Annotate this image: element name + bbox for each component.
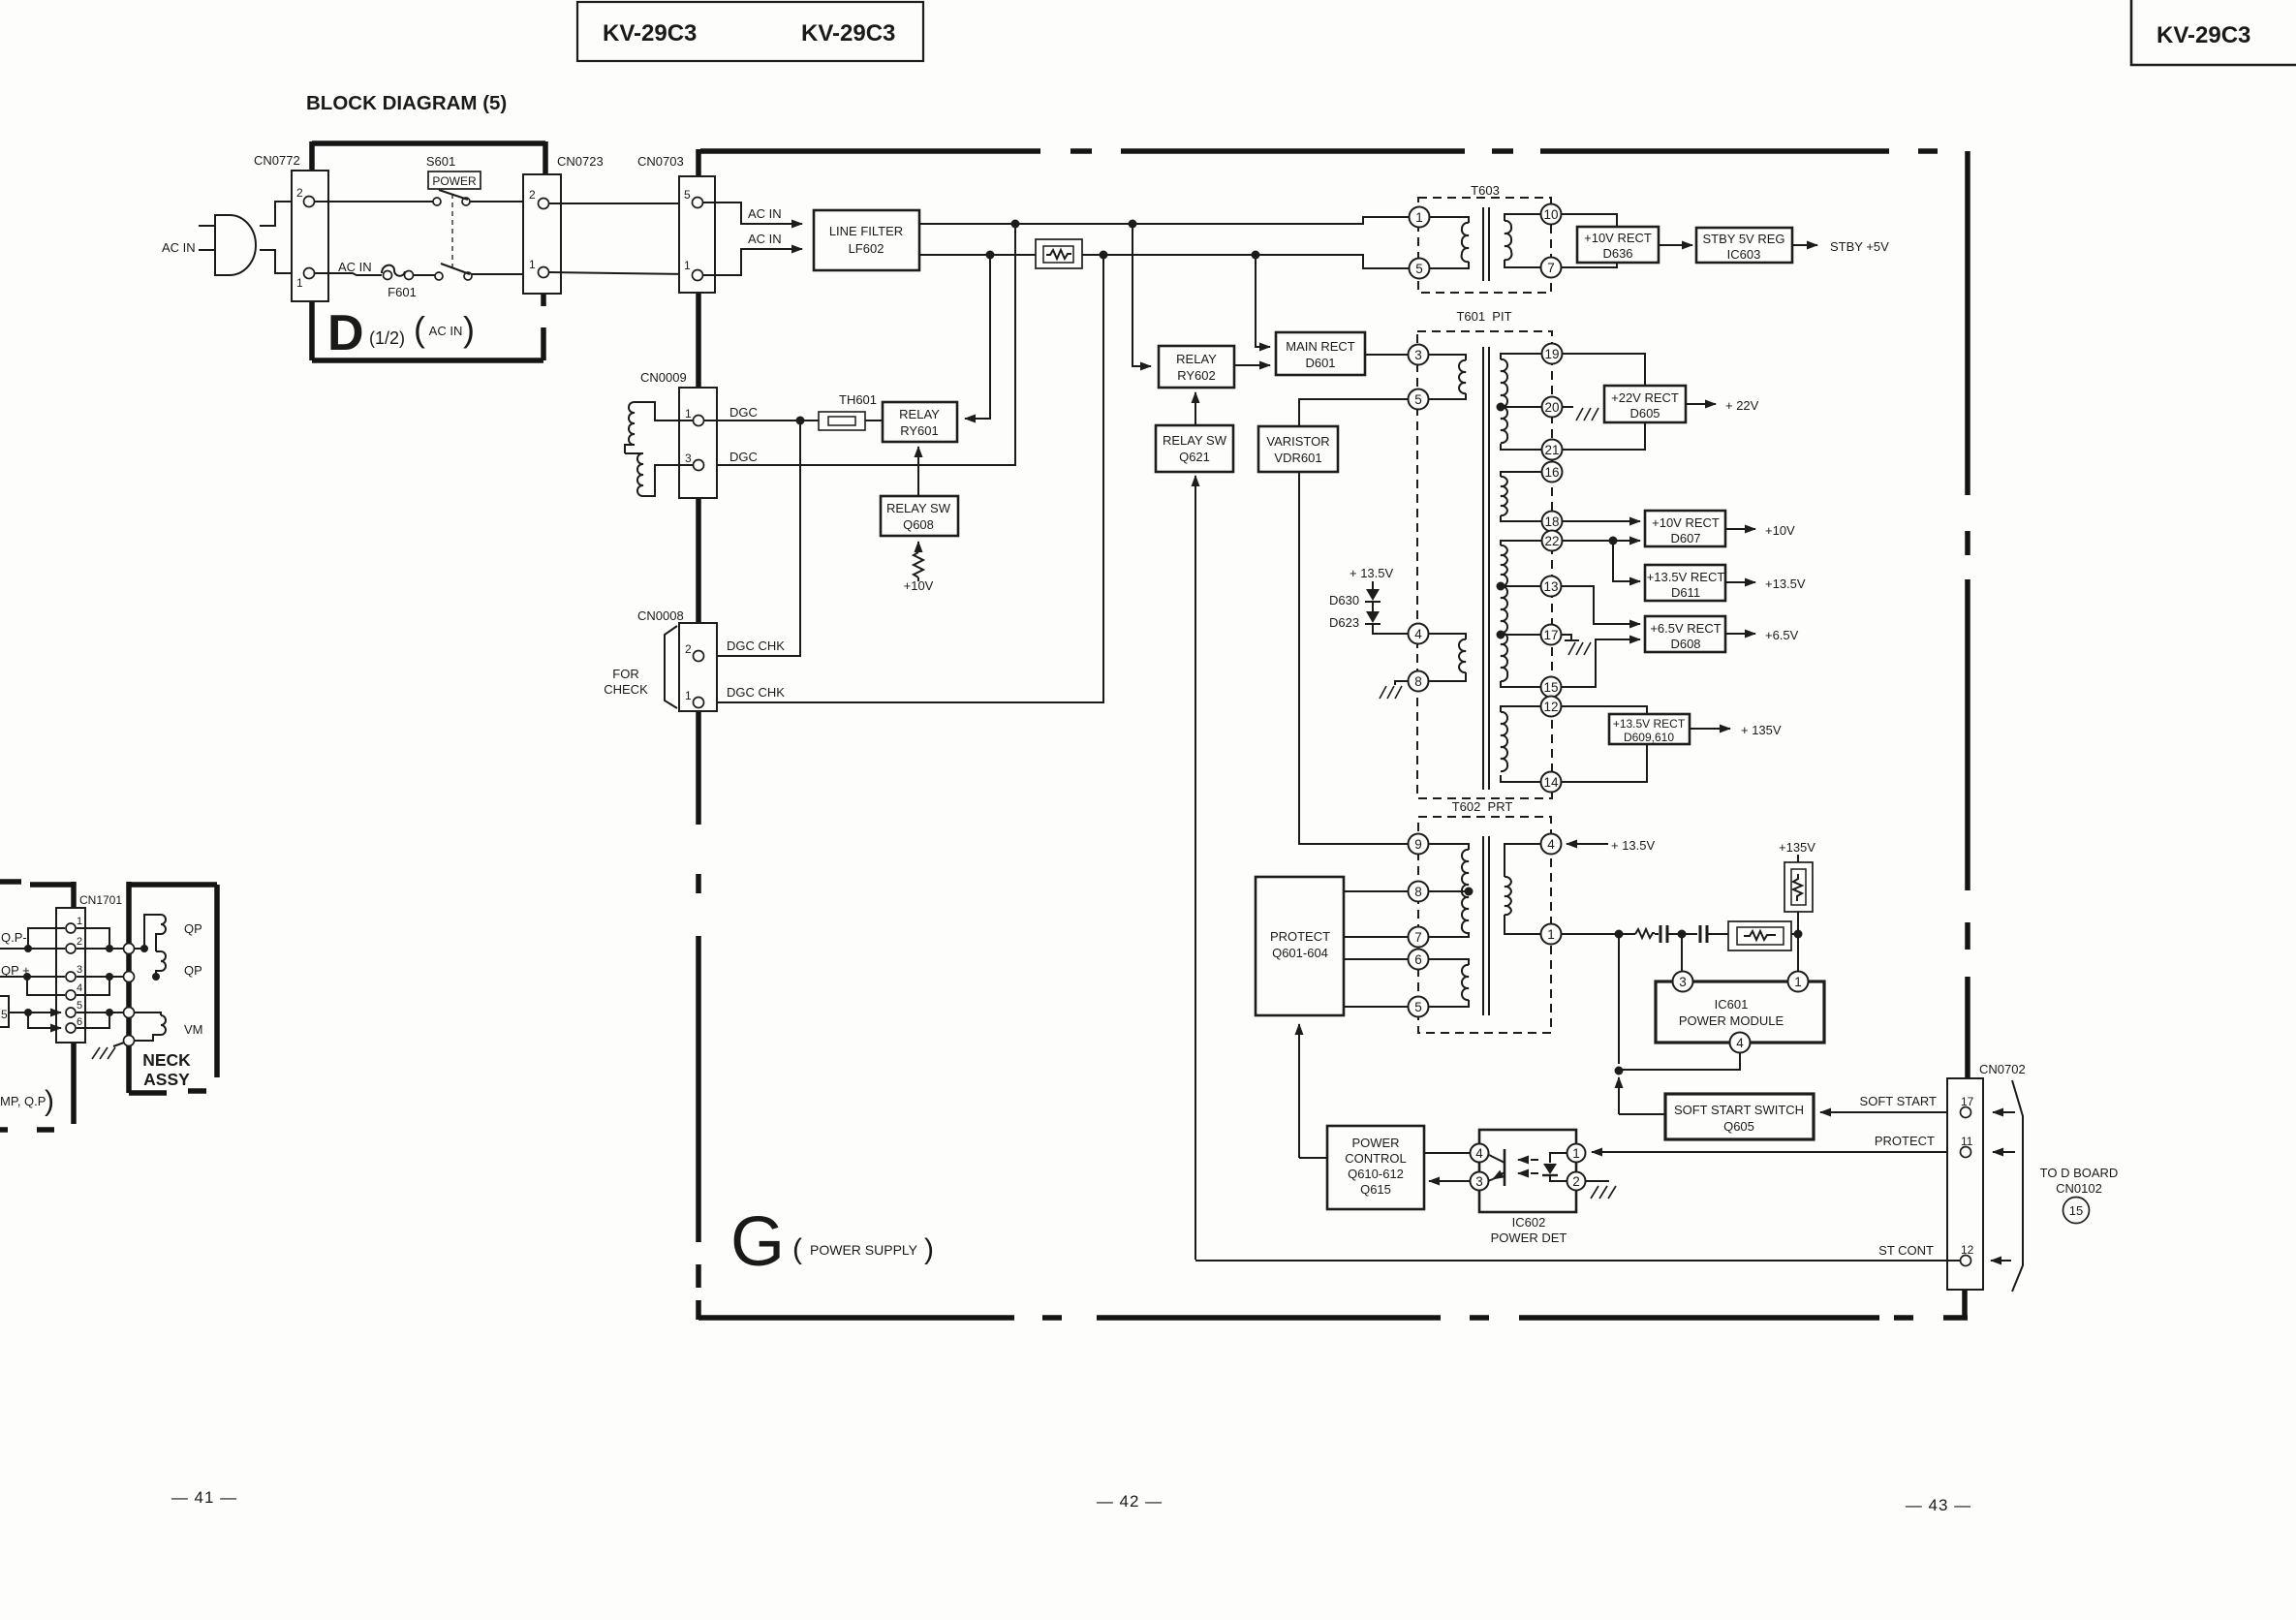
svg-text:15: 15 xyxy=(1543,680,1558,695)
svg-text:2: 2 xyxy=(1572,1174,1580,1189)
T603 primary winding xyxy=(1429,217,1469,268)
rectifier +13.5V RECT D609,610 xyxy=(1562,706,1782,782)
diodes D630 D623 (+13.5V feed to pin 4) xyxy=(1329,566,1408,634)
fusible resistor (horizontal, to +135V node) xyxy=(1728,921,1798,950)
T602 core xyxy=(1483,836,1489,1015)
svg-text:D609,610: D609,610 xyxy=(1624,731,1674,744)
svg-text:CN0008: CN0008 xyxy=(637,608,684,623)
relay RELAY RY602 xyxy=(1159,346,1234,388)
svg-text:CN0723: CN0723 xyxy=(557,154,604,169)
G board border: bottom edge xyxy=(698,1290,1968,1318)
svg-text:D611: D611 xyxy=(1671,585,1700,600)
stub arrow pin17 xyxy=(1993,1111,2015,1113)
T601 core xyxy=(1483,347,1489,790)
relay switch RELAY SW Q608 xyxy=(881,496,958,536)
resistor (snubber R) xyxy=(1635,929,1655,938)
svg-text:+13.5V: +13.5V xyxy=(1765,576,1806,591)
wire ST CONT pin12 xyxy=(1195,1260,1960,1262)
svg-text:10: 10 xyxy=(1543,207,1558,222)
wire POWER CONTROL left to protect vertical xyxy=(1299,1157,1327,1159)
svg-text:8: 8 xyxy=(1414,674,1422,689)
svg-text:+10V: +10V xyxy=(904,578,934,593)
wire POWER CONTROL to IC602 pin4 xyxy=(1424,1152,1470,1154)
wire POWER CONTROL to PROTECT (up arrow) xyxy=(1298,1024,1300,1158)
svg-text:1: 1 xyxy=(1415,210,1423,225)
switch mechanical link (dashed) xyxy=(451,194,453,271)
T601 pin 19 xyxy=(1542,344,1563,364)
svg-text:6: 6 xyxy=(1414,952,1422,967)
connector CN0723 xyxy=(523,154,604,294)
wire fusible resistor to T603 pin5 xyxy=(1082,255,1409,268)
svg-text:DGC: DGC xyxy=(729,450,758,464)
svg-text:IC601: IC601 xyxy=(1715,997,1749,1012)
IC602 pin 1 xyxy=(1567,1144,1586,1163)
svg-text:9: 9 xyxy=(1414,837,1422,852)
svg-text:CONTROL: CONTROL xyxy=(1345,1151,1407,1166)
svg-text:RELAY: RELAY xyxy=(899,407,940,421)
T601 secondary winding 12-14 xyxy=(1501,706,1541,782)
svg-text:CN0772: CN0772 xyxy=(254,153,300,168)
svg-text:RY602: RY602 xyxy=(1177,368,1216,383)
node: junction bottom wire / MAIN RECT branch xyxy=(1252,251,1260,260)
pin 1 CN0008 xyxy=(694,698,704,708)
neighboring board fragment (left edge, D board) xyxy=(0,882,74,1130)
T601 pin 5 xyxy=(1409,389,1429,410)
svg-text:+ 13.5V: + 13.5V xyxy=(1611,838,1656,853)
svg-text:D601: D601 xyxy=(1305,356,1335,370)
svg-text:1: 1 xyxy=(1547,927,1555,942)
svg-text:KV-29C3: KV-29C3 xyxy=(603,20,697,47)
svg-text:+135V: +135V xyxy=(1779,840,1815,855)
svg-text:Q608: Q608 xyxy=(903,517,934,532)
svg-text:2: 2 xyxy=(77,936,82,948)
wires +5 fragment to pins 5,6 (arrows) xyxy=(9,1009,61,1028)
svg-text:2: 2 xyxy=(296,186,303,200)
capacitor C (second) xyxy=(1685,925,1728,943)
svg-text:ST CONT: ST CONT xyxy=(1878,1243,1934,1258)
svg-text:IC602: IC602 xyxy=(1512,1215,1546,1230)
svg-text:POWER SUPPLY: POWER SUPPLY xyxy=(810,1242,918,1258)
pin 2 CN0723 xyxy=(539,199,549,209)
svg-text:SOFT START: SOFT START xyxy=(1860,1094,1938,1108)
svg-text:G: G xyxy=(730,1203,785,1281)
wire +10V with resistor to Q608 xyxy=(904,542,934,593)
wire CN0009.1 to TH601 xyxy=(704,420,819,421)
svg-text:2: 2 xyxy=(529,188,536,202)
NECK ASSY pads (open circles) xyxy=(124,944,135,954)
CN0702 pin 11 xyxy=(1961,1147,1971,1158)
wire branch DGC to CN0008 pin2 xyxy=(704,421,800,656)
connector CN0008 xyxy=(637,608,717,711)
svg-text:5: 5 xyxy=(77,1000,82,1012)
S601 label + POWER box xyxy=(426,154,481,189)
svg-text:4: 4 xyxy=(1736,1036,1744,1050)
svg-text:RELAY SW: RELAY SW xyxy=(1163,433,1227,448)
TO D BOARD CN0102 label xyxy=(2040,1166,2119,1224)
fusible resistor (vertical, +135V line) xyxy=(1779,840,1815,930)
svg-text:1: 1 xyxy=(685,407,692,421)
wire VDR601 to T602 pin9 xyxy=(1299,472,1408,844)
connector CN1701 xyxy=(56,893,122,1043)
T602 pin 1 xyxy=(1541,924,1562,945)
svg-text:3: 3 xyxy=(77,964,82,976)
svg-text:1: 1 xyxy=(1794,975,1802,989)
svg-text:D623: D623 xyxy=(1329,615,1359,630)
pin 1 CN0703 xyxy=(693,270,703,281)
CN1701 pins 1-6 xyxy=(66,923,76,933)
svg-text:1: 1 xyxy=(685,689,692,702)
CN0702 bracket xyxy=(2012,1080,2023,1292)
connector CN0703 xyxy=(637,154,715,293)
svg-text:D: D xyxy=(327,305,364,361)
T603 pin 1 xyxy=(1410,207,1430,228)
svg-text:4: 4 xyxy=(77,982,82,994)
coil VM xyxy=(135,1012,203,1041)
G board border: top edge (dash-dot thick) xyxy=(700,148,1938,154)
node: junction top wire / DGC branch xyxy=(1011,220,1020,229)
svg-text:+10V RECT: +10V RECT xyxy=(1584,231,1652,245)
wire IC603 output STBY +5V xyxy=(1792,244,1817,246)
svg-text:14: 14 xyxy=(1543,775,1559,790)
wire S601 to CN0723.2 xyxy=(470,201,538,202)
svg-text:DGC: DGC xyxy=(729,405,758,420)
rectifier MAIN RECT D601 xyxy=(1276,332,1365,375)
thermistor TH601 xyxy=(819,392,877,430)
svg-text:SOFT START SWITCH: SOFT START SWITCH xyxy=(1674,1103,1804,1117)
transformer T603 xyxy=(1418,183,1551,293)
wire PROTECT from CN0702 pin11 to IC602 pin1 xyxy=(1592,1151,1960,1153)
svg-text:4: 4 xyxy=(1475,1146,1483,1161)
svg-text:+22V RECT: +22V RECT xyxy=(1611,390,1679,405)
CN0702 pin 17 xyxy=(1961,1107,1971,1118)
T602 pin 7 xyxy=(1409,927,1429,948)
svg-text:4: 4 xyxy=(1414,627,1422,641)
G ( POWER SUPPLY ) legend xyxy=(730,1203,934,1281)
regulator STBY 5V REG IC603 xyxy=(1696,228,1792,263)
FOR CHECK label xyxy=(604,667,648,697)
pin 1 CN0772 xyxy=(304,268,315,279)
svg-text:QP: QP xyxy=(184,963,202,978)
switch S601 (bottom pole) xyxy=(414,264,472,280)
svg-text:5: 5 xyxy=(1415,262,1423,276)
IC601 pin 4 xyxy=(1730,1033,1751,1053)
svg-text:CHECK: CHECK xyxy=(604,682,648,697)
T601 pin 20 xyxy=(1542,397,1563,418)
svg-text:F601: F601 xyxy=(388,285,417,299)
svg-text:1: 1 xyxy=(684,259,691,272)
rectifier +10V RECT D607 xyxy=(1563,511,1795,546)
svg-text:NECK: NECK xyxy=(142,1050,191,1070)
svg-text:MAIN RECT: MAIN RECT xyxy=(1286,339,1355,354)
T602 primary winding 9-8-7 xyxy=(1428,844,1469,937)
fusible resistor (AC line) xyxy=(1036,239,1082,268)
svg-text:KV-29C3: KV-29C3 xyxy=(801,20,895,47)
wire Q.P- into pins 1,2 xyxy=(0,928,65,952)
wire CN0703.5 to LINE FILTER xyxy=(703,202,802,224)
node: junction bottom wire / RY601 branch xyxy=(986,251,995,260)
relay switch RELAY SW Q621 xyxy=(1156,425,1233,472)
svg-text:Q615: Q615 xyxy=(1360,1182,1391,1197)
node: DGC / DGC CHK junction xyxy=(796,417,805,425)
degauss coil xyxy=(625,402,693,496)
soft start switch SOFT START SWITCH Q605 xyxy=(1665,1094,1814,1139)
svg-text:S601: S601 xyxy=(426,154,455,169)
wire VDR601 to T601 pin5 xyxy=(1299,399,1408,426)
svg-text:AC IN: AC IN xyxy=(338,260,372,274)
T602 primary winding 6-5 xyxy=(1428,959,1469,1007)
D (1/2) AC IN legend xyxy=(327,305,475,361)
varistor VARISTOR VDR601 xyxy=(1258,426,1338,472)
svg-text:ASSY: ASSY xyxy=(143,1070,190,1089)
T602 pin 8 xyxy=(1409,882,1429,902)
svg-text:3: 3 xyxy=(1414,348,1422,362)
svg-text:LF602: LF602 xyxy=(849,241,884,256)
svg-text:RELAY: RELAY xyxy=(1176,352,1217,366)
svg-text:— 41 —: — 41 — xyxy=(171,1488,237,1507)
wire LF602 top output to T603 pin1 xyxy=(919,217,1409,224)
svg-text:5: 5 xyxy=(1414,392,1422,407)
pin 1 CN0009 xyxy=(694,416,704,426)
pin 5 CN0703 xyxy=(693,198,703,208)
wire PROTECT to T602 pin7 xyxy=(1344,936,1408,938)
svg-text:AC IN: AC IN xyxy=(429,324,463,338)
svg-text:16: 16 xyxy=(1544,465,1559,480)
G board border: right edge xyxy=(1965,151,1970,1078)
svg-text:STBY 5V REG: STBY 5V REG xyxy=(1702,232,1784,246)
wire plug to CN0772 pin2 xyxy=(260,202,303,226)
T601 pin 3 xyxy=(1409,345,1429,365)
svg-text:POWER MODULE: POWER MODULE xyxy=(1679,1013,1784,1028)
svg-text:AC IN: AC IN xyxy=(748,232,782,246)
wire Q621 to RY602 xyxy=(1195,392,1196,425)
node: soft start junction xyxy=(1615,1067,1624,1075)
T603 pin 10 xyxy=(1541,204,1562,225)
coil QP (lower) xyxy=(152,951,202,981)
IC602 LED xyxy=(1542,1153,1567,1181)
svg-text:19: 19 xyxy=(1544,347,1559,361)
stub arrow pin12 xyxy=(1991,1260,2011,1262)
svg-text:8: 8 xyxy=(1414,885,1422,899)
svg-text:2: 2 xyxy=(685,642,692,656)
node: +135V junction xyxy=(1794,930,1803,939)
protect block PROTECT Q601-604 xyxy=(1256,877,1344,1015)
svg-text:17: 17 xyxy=(1543,628,1558,642)
T601 pin 12 xyxy=(1541,697,1562,717)
NECK ASSY label xyxy=(142,1050,191,1089)
T601 pin 21 xyxy=(1542,440,1563,460)
svg-text:VARISTOR: VARISTOR xyxy=(1266,434,1329,449)
T603 pin 7 xyxy=(1541,258,1562,278)
wire ST CONT to Q621 (long vertical) xyxy=(1195,476,1196,1260)
fuse F601 xyxy=(382,265,417,299)
svg-text:— 43 —: — 43 — xyxy=(1906,1496,1971,1514)
svg-text:DGC CHK: DGC CHK xyxy=(727,639,785,653)
T601 primary winding (pins 3-5) xyxy=(1428,355,1466,399)
svg-text:1: 1 xyxy=(1572,1146,1580,1161)
T603 core xyxy=(1483,207,1489,281)
svg-text:1: 1 xyxy=(529,258,536,271)
svg-text:): ) xyxy=(463,309,475,349)
IC602 pin 4 xyxy=(1471,1144,1489,1163)
svg-text:CN0009: CN0009 xyxy=(640,370,687,385)
connector CN0772 xyxy=(254,153,328,301)
CN0702 pin 12 xyxy=(1961,1256,1971,1266)
svg-text:QP: QP xyxy=(184,921,202,936)
NECK ASSY board frame xyxy=(129,882,217,1093)
switch S601 (top pole) xyxy=(433,190,470,205)
svg-text:PROTECT: PROTECT xyxy=(1875,1134,1935,1148)
svg-text:3: 3 xyxy=(1679,975,1687,989)
svg-text:STBY +5V: STBY +5V xyxy=(1830,239,1889,254)
wire SOFT START from CN0702 pin17 xyxy=(1820,1111,1960,1113)
svg-text:Q.P-: Q.P- xyxy=(1,930,27,945)
svg-text:CN0702: CN0702 xyxy=(1979,1062,2026,1076)
svg-text:5: 5 xyxy=(1414,1000,1422,1014)
svg-text:3: 3 xyxy=(1475,1174,1483,1189)
LINE FILTER LF602 xyxy=(814,210,919,270)
T601 pin 8 xyxy=(1409,671,1429,692)
pin 1 CN0723 xyxy=(539,267,549,278)
svg-text:CN0102: CN0102 xyxy=(2056,1181,2102,1196)
wire CN0772.1 to fuse F601 xyxy=(315,273,382,275)
svg-text:13: 13 xyxy=(1543,579,1558,594)
ground at pin 17 xyxy=(1562,635,1591,655)
transformer T602 PRT xyxy=(1418,799,1551,1033)
IC601 pin 1 xyxy=(1788,972,1809,992)
wire branch to RELAY RY602 xyxy=(1132,224,1151,366)
svg-text:VM: VM xyxy=(184,1022,203,1037)
T601 pin 13 xyxy=(1541,576,1562,597)
svg-text:PROTECT: PROTECT xyxy=(1270,929,1330,944)
IC602 pin 3 xyxy=(1471,1172,1489,1191)
svg-text:15: 15 xyxy=(2069,1203,2083,1218)
wire LF602 bottom output to fusible resistor xyxy=(919,254,1036,256)
svg-text:): ) xyxy=(45,1085,54,1117)
svg-text:D607: D607 xyxy=(1670,531,1700,545)
svg-text:CN0703: CN0703 xyxy=(637,154,684,169)
power module IC601 xyxy=(1656,981,1824,1043)
header box KV-29C3 (right) xyxy=(2131,0,2296,65)
capacitor C (first) xyxy=(1655,925,1679,943)
svg-text:7: 7 xyxy=(1414,930,1422,945)
wires CN0723 to CN0703 xyxy=(549,202,690,204)
node: junction to IC601 pin3 xyxy=(1678,930,1687,939)
svg-text:3: 3 xyxy=(685,452,692,465)
svg-text:+13.5V RECT: +13.5V RECT xyxy=(1647,570,1725,584)
G board border: left edge (passes through CN0703/CN0009/CN0008) xyxy=(696,149,701,1320)
svg-text:1: 1 xyxy=(296,276,303,290)
rectifier +22V RECT D605 xyxy=(1563,354,1759,450)
svg-text:D608: D608 xyxy=(1670,637,1700,651)
wire IC601 pin4 return to soft-start node xyxy=(1622,1053,1740,1070)
svg-text:RELAY SW: RELAY SW xyxy=(886,501,951,515)
wire branch to MAIN RECT D601 xyxy=(1256,255,1270,347)
T601 pin 22 xyxy=(1542,531,1563,551)
wire Q608 to RY601 xyxy=(917,447,919,496)
wire MAIN RECT to T601 pin3 xyxy=(1365,354,1408,356)
node: junction bottom wire / DGC CHK branch xyxy=(1100,251,1108,260)
wire junction to IC601 pin1 xyxy=(1797,934,1799,971)
wire QP+ into pins 3,4 xyxy=(0,973,65,995)
svg-text:6: 6 xyxy=(77,1016,82,1028)
ground at NECK pad xyxy=(92,1043,124,1059)
svg-text:+ 13.5V: + 13.5V xyxy=(1350,566,1394,580)
T601 pin 4 xyxy=(1409,624,1429,644)
svg-text:MP, Q.P: MP, Q.P xyxy=(0,1094,46,1108)
wire branch to CN0008 pin1 (DGC CHK) xyxy=(704,255,1103,702)
T601 pin 15 xyxy=(1541,677,1562,698)
svg-text:+6.5V: +6.5V xyxy=(1765,628,1799,642)
svg-text:7: 7 xyxy=(1547,261,1555,275)
svg-text:20: 20 xyxy=(1544,400,1559,415)
svg-text:CN1701: CN1701 xyxy=(79,893,122,907)
wires T603 to +10V RECT D636 xyxy=(1562,214,1617,227)
T601 pin 18 xyxy=(1542,512,1563,532)
wire PROTECT to T602 pin6 xyxy=(1344,958,1408,960)
pin 2 CN0772 xyxy=(304,197,315,207)
wire PROTECT to T602 pin8 xyxy=(1344,890,1408,892)
svg-text:22: 22 xyxy=(1544,534,1559,548)
svg-text:Q601-604: Q601-604 xyxy=(1272,946,1328,960)
wire CN0772.2 to switch S601 xyxy=(315,201,433,202)
svg-text:+10V RECT: +10V RECT xyxy=(1652,515,1720,530)
T601 primary winding (pins 4-8) xyxy=(1428,634,1466,681)
svg-text:BLOCK DIAGRAM (5): BLOCK DIAGRAM (5) xyxy=(306,92,507,114)
wire IC602 pin3 to POWER CONTROL xyxy=(1429,1180,1470,1182)
wire T602 pin1 output xyxy=(1562,933,1635,935)
svg-text:FOR: FOR xyxy=(612,667,638,681)
svg-text:+10V: +10V xyxy=(1765,523,1795,538)
svg-text:12: 12 xyxy=(1961,1243,1974,1257)
wire +13.5V into T602 pin 4 xyxy=(1567,838,1656,853)
svg-text:AC IN: AC IN xyxy=(162,240,196,255)
svg-text:17: 17 xyxy=(1961,1095,1974,1108)
wire S601 bottom to CN0723.1 xyxy=(472,273,538,275)
connector CN0702 xyxy=(1947,1062,2026,1290)
IC602 phototransistor xyxy=(1488,1149,1505,1186)
AC plug xyxy=(199,215,256,275)
svg-text:Q621: Q621 xyxy=(1179,450,1210,464)
svg-text:): ) xyxy=(924,1233,934,1265)
svg-text:(1/2): (1/2) xyxy=(369,328,405,348)
pin 3 CN0009 xyxy=(694,460,704,471)
rectifier +10V RECT D636 xyxy=(1577,227,1659,263)
wire RY602 to MAIN RECT xyxy=(1234,364,1270,366)
arrow up into soft start node xyxy=(1618,1077,1620,1114)
svg-text:DGC CHK: DGC CHK xyxy=(727,685,785,700)
pin 2 CN0008 xyxy=(694,651,704,662)
T601 pin 14 xyxy=(1541,772,1562,793)
svg-text:5: 5 xyxy=(1,1008,8,1021)
wire PROTECT to T602 pin5 xyxy=(1344,1006,1408,1008)
svg-text:AC IN: AC IN xyxy=(748,206,782,221)
header box KV-29C3 (center) xyxy=(577,2,923,61)
ground at pin 8 xyxy=(1380,681,1408,699)
wire CN0703.1 to LINE FILTER xyxy=(703,249,802,275)
svg-text:+ 22V: + 22V xyxy=(1725,398,1759,413)
svg-text:Q605: Q605 xyxy=(1723,1119,1754,1134)
svg-text:LINE FILTER: LINE FILTER xyxy=(829,224,903,238)
ground at pin 20 xyxy=(1563,407,1598,421)
T601 pin 17 xyxy=(1541,625,1562,645)
svg-text:+13.5V RECT: +13.5V RECT xyxy=(1613,717,1686,731)
svg-text:KV-29C3: KV-29C3 xyxy=(2156,22,2250,48)
svg-text:T603: T603 xyxy=(1471,183,1500,198)
svg-text:TO D BOARD: TO D BOARD xyxy=(2040,1166,2119,1180)
rectifier +13.5V RECT D611 xyxy=(1613,541,1806,601)
stub arrow pin11 xyxy=(1993,1151,2015,1153)
svg-text:Q610-612: Q610-612 xyxy=(1348,1167,1404,1181)
